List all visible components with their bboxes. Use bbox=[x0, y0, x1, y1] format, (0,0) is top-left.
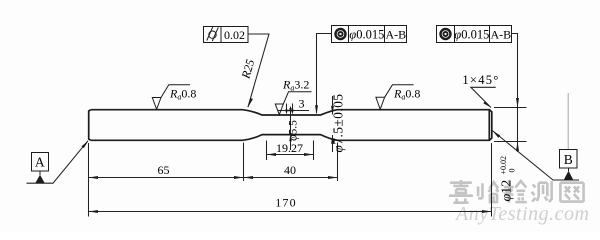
svg-text:40: 40 bbox=[284, 163, 296, 177]
svg-text:A-B: A-B bbox=[490, 27, 511, 41]
FCF0 leader arrow bbox=[248, 98, 253, 107]
svg-text:1×45°: 1×45° bbox=[462, 73, 499, 87]
datum B bbox=[560, 150, 578, 172]
roughness Ra3.2 at notch bbox=[275, 92, 311, 115]
watermark CJK jiayu-jiance-wang (pseudo-glyph strokes) bbox=[449, 180, 584, 203]
dia7.5 dim line bottom bbox=[332, 135, 334, 152]
svg-text:φ0.015: φ0.015 bbox=[454, 27, 489, 41]
right end extension lines bbox=[494, 107, 527, 109]
svg-text:B: B bbox=[564, 152, 573, 167]
FCF0 leader bbox=[248, 34, 269, 107]
svg-text:170: 170 bbox=[275, 196, 297, 210]
3-dim arrows bbox=[287, 109, 294, 111]
faint vertical above B bbox=[567, 93, 569, 149]
svg-text:φ12: φ12 bbox=[500, 180, 515, 202]
65 dim line bbox=[89, 177, 244, 179]
dia7.5 arrows bbox=[331, 106, 334, 115]
3-dim line segments bbox=[278, 110, 287, 112]
roughness Ra0.8 left bbox=[152, 85, 190, 110]
svg-text:A: A bbox=[35, 155, 45, 170]
svg-text:Ra0.8: Ra0.8 bbox=[393, 87, 420, 102]
shaft outline bbox=[89, 110, 492, 141]
svg-text:Ra3.2: Ra3.2 bbox=[282, 78, 309, 93]
40 dim line bbox=[244, 177, 338, 179]
svg-text:φ5.5: φ5.5 bbox=[287, 120, 299, 141]
svg-text:Ra0.8: Ra0.8 bbox=[169, 87, 196, 102]
thin drawing lines bbox=[27, 34, 580, 217]
svg-text:0.02: 0.02 bbox=[224, 28, 245, 42]
roughness Ra0.8 right bbox=[376, 85, 414, 110]
svg-text:0: 0 bbox=[508, 169, 517, 173]
svg-text:19.27: 19.27 bbox=[276, 141, 303, 155]
19.27 dim line bbox=[267, 154, 314, 156]
dia12 +0.02/0 vertical label bbox=[499, 156, 517, 202]
65 dim arrows bbox=[89, 176, 99, 179]
datum A leader bbox=[27, 141, 88, 183]
datum A leader arrow bbox=[82, 141, 89, 149]
FCF1 leader bbox=[317, 34, 333, 114]
datum A bbox=[32, 153, 49, 176]
19.27 arrows bbox=[267, 153, 277, 156]
170 dim line bbox=[89, 211, 492, 213]
svg-text:φ7.5±0.05: φ7.5±0.05 bbox=[331, 93, 346, 152]
extension line 170 right bbox=[491, 143, 493, 217]
arrowheads bbox=[82, 98, 520, 213]
extension line left (65/170) bbox=[88, 143, 90, 217]
svg-text:65: 65 bbox=[158, 163, 170, 177]
dia5.5 dim line bbox=[290, 107, 292, 151]
FCF1 leader arrow bbox=[315, 105, 318, 115]
svg-text:3: 3 bbox=[299, 97, 305, 111]
FCF1 concentricity bbox=[332, 26, 407, 43]
svg-text:φ0.015: φ0.015 bbox=[349, 27, 384, 41]
dia12 leader arrow at right face bbox=[493, 131, 501, 138]
19.27 ext lines bbox=[266, 141, 268, 161]
170 dim arrows bbox=[89, 210, 99, 213]
extension line 40 right bbox=[337, 143, 339, 182]
chamfer note leader bbox=[471, 87, 496, 107]
dia12 / datum B leader bbox=[492, 131, 579, 181]
FCF0 cylindricity 0.02 bbox=[204, 27, 249, 43]
FCF2 concentricity bbox=[437, 26, 512, 43]
dia12 bottom arrow bbox=[516, 142, 519, 152]
FCF2 / dia12 top arrow bbox=[516, 98, 519, 108]
chamfer leader arrow bbox=[483, 101, 491, 107]
40 dim arrows bbox=[244, 176, 254, 179]
FCF2 leader / dia12 dim line bbox=[512, 34, 518, 153]
dia5.5 arrows bbox=[289, 108, 292, 115]
3-dim ext lines bbox=[286, 104, 288, 114]
extension line 65/40 shared bbox=[243, 143, 245, 182]
dia7.5 dim line top bbox=[332, 96, 334, 115]
svg-text:A-B: A-B bbox=[385, 27, 406, 41]
svg-text:AnyTesting.com: AnyTesting.com bbox=[454, 203, 589, 225]
